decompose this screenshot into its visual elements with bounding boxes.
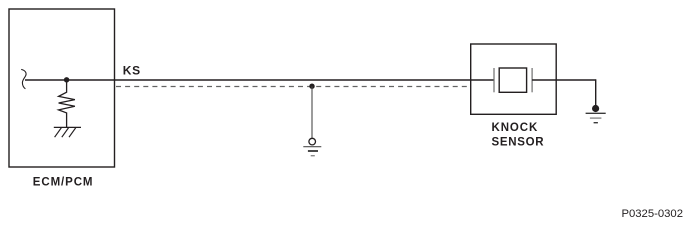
ground G1 (body ground with connector ring) xyxy=(303,138,321,155)
wire KS: ECM to knock sensor element xyxy=(25,79,494,81)
label KNOCK SENSOR xyxy=(492,122,545,148)
node: shield ground junction dot xyxy=(309,84,314,89)
wire: shield to body ground xyxy=(311,86,313,138)
wire-break squiggle (ECM internal continuation) xyxy=(21,69,26,88)
svg-text:P0325-0302: P0325-0302 xyxy=(621,208,683,220)
resistor R (ECM pull-up/pull-down) xyxy=(59,80,75,127)
svg-text:ECM/PCM: ECM/PCM xyxy=(33,176,94,188)
svg-text:KNOCK: KNOCK xyxy=(492,122,539,134)
piezo element: crystal square xyxy=(499,68,526,92)
svg-text:SENSOR: SENSOR xyxy=(492,136,545,148)
ECM/PCM box U1 xyxy=(9,9,115,167)
node: junction dot inside ECM xyxy=(64,77,69,82)
piezo element: right electrode xyxy=(531,68,533,92)
wire: shield drain (dashed) xyxy=(116,86,467,88)
knock sensor box xyxy=(471,44,557,114)
wire: sensor ground drop (vertical) xyxy=(595,79,597,106)
ground G2 (sensor body ground) xyxy=(586,113,606,122)
ground (earth symbol under resistor) xyxy=(54,127,81,137)
node: sensor ground dot xyxy=(592,105,599,112)
piezo element (knock sensor crystal): left electrode xyxy=(493,68,495,92)
svg-text:KS: KS xyxy=(123,64,141,78)
wire: sensor to ground (horizontal) xyxy=(532,79,596,81)
